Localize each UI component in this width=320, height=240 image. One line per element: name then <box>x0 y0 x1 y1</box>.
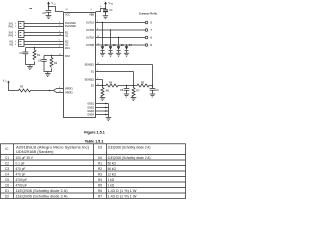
svg-text:C2: C2 <box>5 161 9 165</box>
svg-text:VBB: VBB <box>89 14 94 17</box>
svg-text:OUT1A: OUT1A <box>86 22 94 25</box>
svg-text:11EQS06 (Schottky diode 2 A): 11EQS06 (Schottky diode 2 A) <box>108 156 151 160</box>
svg-text:PwrGND2: PwrGND2 <box>65 25 76 28</box>
svg-text:SENSE1: SENSE1 <box>85 64 95 67</box>
svg-text:C1: C1 <box>5 156 9 160</box>
svg-text:VCC: VCC <box>65 14 70 17</box>
svg-text:100 µF 35 V: 100 µF 35 V <box>16 156 34 160</box>
svg-text:OUT1B: OUT1B <box>86 29 94 32</box>
svg-text:11: 11 <box>59 91 61 93</box>
svg-text:Figure 1.5.1: Figure 1.5.1 <box>84 131 105 135</box>
svg-text:R4: R4 <box>98 178 102 182</box>
svg-text:2: 2 <box>97 21 98 23</box>
svg-text:5: 5 <box>97 78 98 80</box>
svg-text:GND1: GND1 <box>87 103 94 106</box>
svg-text:R1: R1 <box>98 161 102 165</box>
svg-text:GND4: GND4 <box>87 114 94 117</box>
svg-text:3: 3 <box>59 22 60 24</box>
svg-text:1.43 Ω (1 %) 1 W: 1.43 Ω (1 %) 1 W <box>108 189 137 193</box>
svg-text:IN2: IN2 <box>9 44 13 47</box>
svg-text:6: 6 <box>15 44 16 46</box>
svg-text:6: 6 <box>150 36 152 40</box>
svg-text:4: 4 <box>15 35 16 37</box>
svg-text:12: 12 <box>97 43 99 45</box>
svg-text:R6: R6 <box>98 189 102 193</box>
svg-text:2: 2 <box>15 26 16 28</box>
svg-text:56 kΩ: 56 kΩ <box>108 161 117 165</box>
svg-text:1 kΩ: 1 kΩ <box>108 178 115 182</box>
svg-text:R7: R7 <box>98 194 102 198</box>
svg-text:470 pF: 470 pF <box>16 172 26 176</box>
svg-text:R5: R5 <box>98 183 102 187</box>
svg-text:5: 5 <box>15 41 16 43</box>
svg-text:PH1: PH1 <box>9 26 14 29</box>
svg-text:4700 pF: 4700 pF <box>16 178 28 182</box>
svg-text:SENSE2: SENSE2 <box>85 79 95 82</box>
svg-text:15: 15 <box>97 84 99 86</box>
svg-text:1: 1 <box>15 23 16 25</box>
svg-text:0.1 µF: 0.1 µF <box>16 161 25 165</box>
svg-text:6: 6 <box>59 87 60 89</box>
svg-text:11: 11 <box>97 63 99 65</box>
svg-text:VREF2: VREF2 <box>65 92 73 95</box>
svg-text:11EQS06 (Schottky diode 2 A): 11EQS06 (Schottky diode 2 A) <box>16 189 68 193</box>
svg-text:R3: R3 <box>98 172 102 176</box>
svg-text:13: 13 <box>97 36 99 38</box>
svg-text:11EQS06 (Schottky diode 2 A): 11EQS06 (Schottky diode 2 A) <box>108 146 151 150</box>
svg-text:4: 4 <box>59 46 60 48</box>
svg-text:C6: C6 <box>5 183 9 187</box>
svg-text:9: 9 <box>59 31 60 33</box>
svg-text:D2: D2 <box>5 194 9 198</box>
svg-text:RC1: RC1 <box>65 47 70 50</box>
svg-text:OUT2A: OUT2A <box>86 37 94 40</box>
svg-text:56 kΩ: 56 kΩ <box>108 167 117 171</box>
svg-text:2: 2 <box>60 43 61 45</box>
svg-text:D3: D3 <box>98 146 102 150</box>
svg-text:A2918SLB (Allegro Micro System: A2918SLB (Allegro Micro Systems Inc) <box>16 145 89 149</box>
svg-text:5: 5 <box>150 21 152 25</box>
svg-text:4: 4 <box>91 9 92 11</box>
svg-text:C3: C3 <box>5 167 9 171</box>
svg-text:OUT2B: OUT2B <box>86 44 94 47</box>
svg-text:1.43 Ω (1 %) 1 W: 1.43 Ω (1 %) 1 W <box>108 194 137 198</box>
svg-text:3: 3 <box>97 28 98 30</box>
svg-text:Table 1.5.1: Table 1.5.1 <box>85 140 104 144</box>
svg-text:PH2: PH2 <box>9 35 14 38</box>
svg-text:12: 12 <box>59 54 61 56</box>
svg-text:8: 8 <box>150 43 152 47</box>
svg-text:D4: D4 <box>98 156 102 160</box>
svg-text:1: 1 <box>97 70 98 72</box>
svg-text:RC2: RC2 <box>65 55 70 58</box>
svg-text:11EQS06 (Schottky diode 2 A): 11EQS06 (Schottky diode 2 A) <box>16 194 68 198</box>
svg-text:24: 24 <box>66 9 68 11</box>
svg-text:4700 pF: 4700 pF <box>16 183 28 187</box>
svg-text:C4: C4 <box>5 172 9 176</box>
svg-text:VREF1: VREF1 <box>65 88 73 91</box>
svg-text:7: 7 <box>59 40 60 42</box>
svg-text:8: 8 <box>60 25 61 27</box>
svg-text:1 kΩ: 1 kΩ <box>108 183 115 187</box>
svg-text:7: 7 <box>150 28 152 32</box>
svg-text:UDN2916B (Sanken): UDN2916B (Sanken) <box>16 150 54 154</box>
svg-text:10: 10 <box>59 34 61 36</box>
svg-text:12 kΩ: 12 kΩ <box>108 172 117 176</box>
svg-text:C5: C5 <box>5 178 9 182</box>
svg-text:470 pF: 470 pF <box>16 167 26 171</box>
svg-text:R2: R2 <box>98 167 102 171</box>
svg-text:3: 3 <box>15 32 16 34</box>
svg-text:D1: D1 <box>5 189 9 193</box>
svg-text:Connector Pin No.: Connector Pin No. <box>139 11 158 15</box>
